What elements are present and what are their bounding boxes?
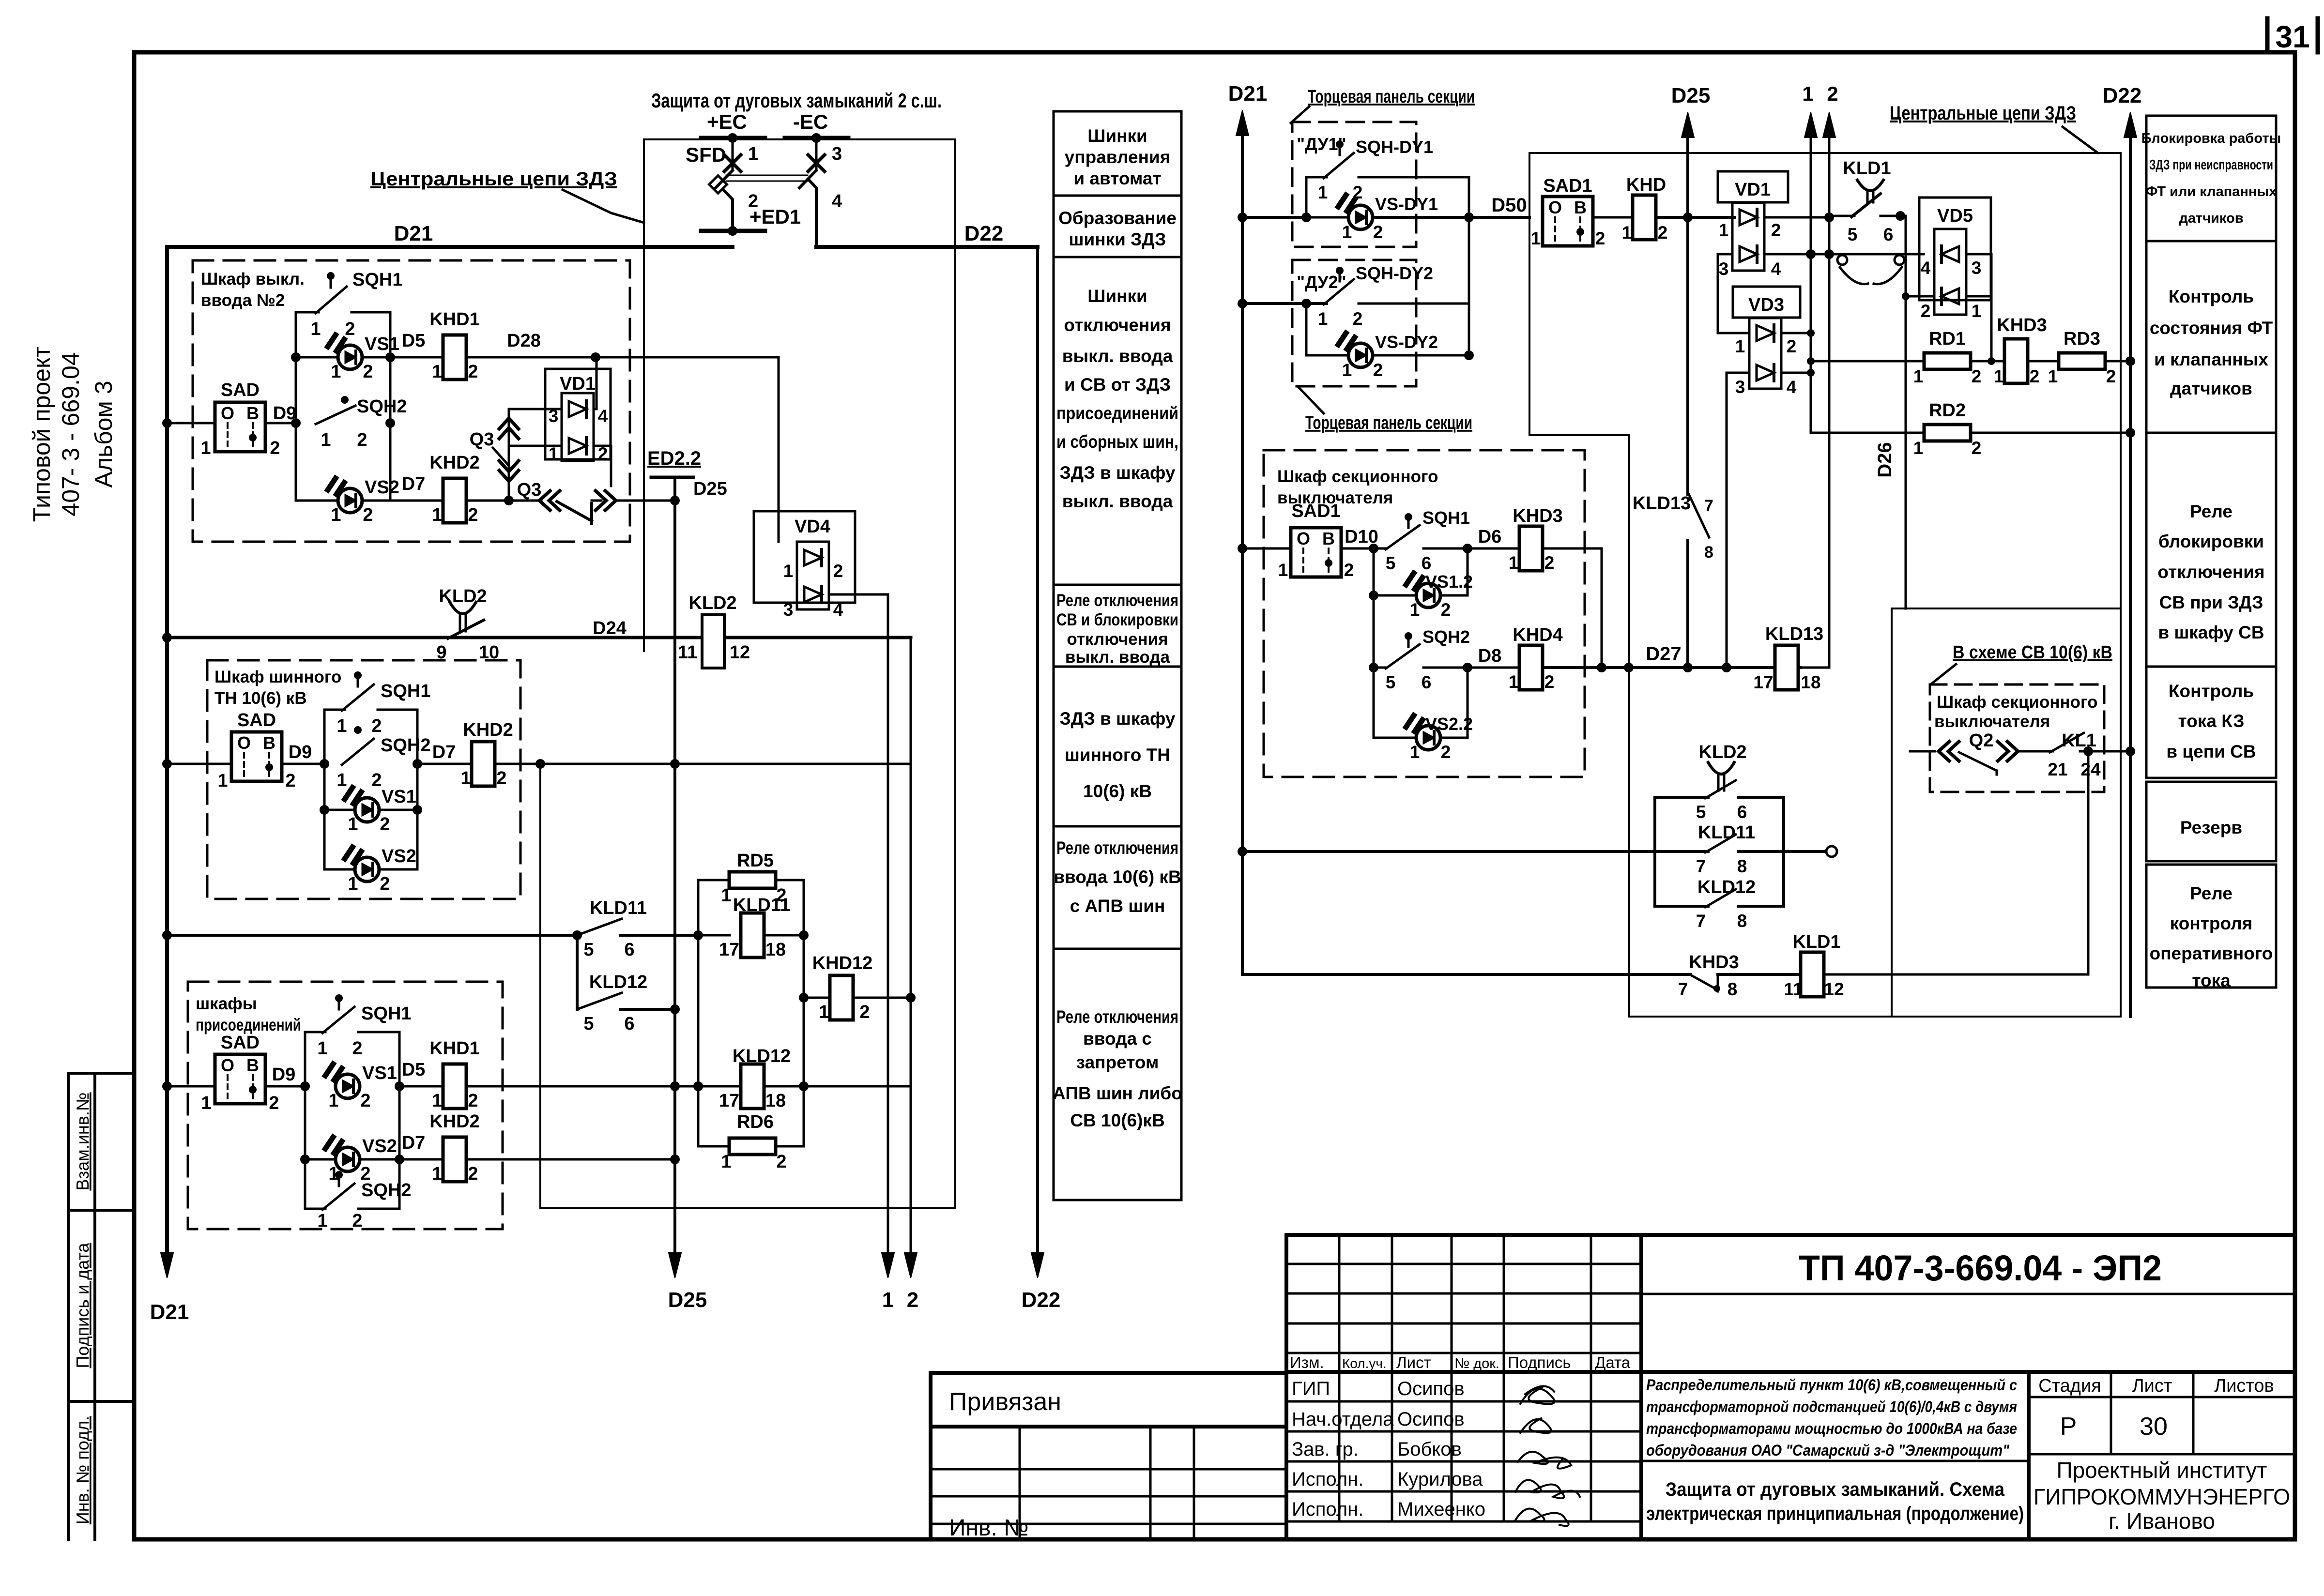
svg-text:Привязан: Привязан	[949, 1388, 1061, 1416]
svg-text:KHD2: KHD2	[429, 453, 479, 473]
svg-text:Стадия: Стадия	[2038, 1376, 2101, 1396]
svg-text:VS-DY2: VS-DY2	[1375, 332, 1438, 352]
svg-text:4: 4	[598, 406, 608, 426]
svg-text:Центральные цепи ЗДЗ: Центральные цепи ЗДЗ	[1890, 103, 2076, 124]
wire	[390, 356, 443, 359]
wire VD3 pin3 down to D27	[1727, 373, 1749, 668]
relay KLD1 coil	[1801, 952, 1824, 997]
svg-text:выкл. ввода: выкл. ввода	[1062, 346, 1173, 366]
svg-text:1: 1	[1278, 560, 1288, 580]
svg-text:Центральные цепи ЗДЗ: Центральные цепи ЗДЗ	[370, 168, 617, 190]
svg-text:Инв. №: Инв. №	[949, 1515, 1029, 1541]
svg-text:2: 2	[1771, 220, 1781, 240]
svg-text:2: 2	[1344, 560, 1354, 580]
svg-text:1: 1	[1531, 228, 1541, 248]
svg-text:1: 1	[2048, 366, 2058, 386]
svg-text:KHD1: KHD1	[429, 309, 479, 330]
svg-text:Защита от дуговых замыканий. С: Защита от дуговых замыканий. Схема	[1666, 1479, 2005, 1500]
relay KHD3	[1519, 526, 1543, 571]
svg-text:1: 1	[200, 438, 211, 458]
svg-text:1: 1	[1410, 742, 1420, 762]
svg-text:24: 24	[2080, 760, 2101, 779]
svg-text:Шкаф секционного: Шкаф секционного	[1277, 467, 1438, 486]
svg-text:Кол.уч.: Кол.уч.	[1342, 1356, 1387, 1371]
svg-text:17: 17	[1753, 672, 1773, 692]
svg-text:управления: управления	[1065, 147, 1171, 167]
wire VD4 pin4 to arrows rail	[829, 594, 888, 638]
svg-text:5: 5	[583, 940, 594, 960]
diode assembly VD4	[754, 511, 855, 603]
svg-text:ЗДЗ в шкафу: ЗДЗ в шкафу	[1060, 709, 1176, 729]
lamp VS1.2	[1373, 548, 1375, 595]
svg-text:1: 1	[217, 771, 228, 791]
svg-text:1: 1	[1318, 309, 1328, 329]
wire to VD1	[1656, 216, 1734, 219]
svg-text:1: 1	[460, 768, 471, 789]
svg-text:VD3: VD3	[1748, 295, 1784, 315]
switch SQH2	[316, 406, 355, 424]
wire VD3 pin4 to rail1	[1781, 372, 1811, 374]
svg-text:2: 2	[468, 362, 478, 382]
svg-text:2: 2	[1921, 301, 1931, 321]
wire left rail	[295, 312, 297, 501]
svg-text:D28: D28	[507, 331, 541, 351]
lamp VS2 row	[305, 1158, 335, 1161]
svg-text:ЗДЗ при неисправности: ЗДЗ при неисправности	[2149, 157, 2273, 173]
breaker SFD pole 3-4	[815, 138, 818, 170]
svg-text:1: 1	[1913, 438, 1924, 458]
wire rails	[304, 1032, 306, 1209]
svg-text:D24: D24	[593, 618, 627, 638]
svg-text:и клапанных: и клапанных	[2154, 350, 2268, 369]
switch SAD	[215, 1054, 265, 1104]
svg-text:Листов: Листов	[2214, 1376, 2274, 1396]
wire	[390, 500, 443, 502]
svg-text:2: 2	[468, 1164, 478, 1184]
svg-text:7: 7	[1696, 911, 1706, 931]
svg-text:1: 1	[1994, 366, 2004, 386]
svg-text:Реле отключения: Реле отключения	[1056, 591, 1178, 610]
svg-text:D22: D22	[2103, 84, 2142, 107]
svg-text:D50: D50	[1491, 195, 1527, 216]
svg-text:KLD1: KLD1	[1792, 932, 1840, 952]
svg-text:VS2.2: VS2.2	[1425, 714, 1473, 734]
svg-text:Шинки: Шинки	[1087, 286, 1147, 306]
svg-text:8: 8	[1728, 979, 1738, 999]
svg-text:1: 1	[1509, 672, 1519, 692]
node D25 bottom arrow	[669, 1253, 681, 1278]
svg-text:выключателя: выключателя	[1934, 712, 2050, 731]
svg-text:D26: D26	[1874, 442, 1896, 477]
node dashed cabinet Шкаф шинного ТН 10(6) кВ	[207, 660, 520, 899]
svg-text:21: 21	[2048, 760, 2067, 779]
svg-text:VS2: VS2	[362, 1136, 397, 1156]
wire VD5 pin3 right down	[1966, 254, 1991, 361]
svg-text:SQH2: SQH2	[381, 735, 430, 756]
resistor RD1 row	[1811, 360, 1924, 363]
svg-text:1: 1	[310, 319, 321, 339]
svg-text:VS1: VS1	[362, 1063, 397, 1083]
svg-text:KLD11: KLD11	[590, 898, 647, 918]
svg-text:2: 2	[345, 319, 355, 339]
svg-text:1: 1	[1509, 553, 1519, 573]
svg-text:KHD1: KHD1	[429, 1038, 479, 1059]
svg-text:1: 1	[1735, 336, 1745, 356]
svg-text:Шкаф шинного: Шкаф шинного	[214, 668, 341, 686]
svg-text:1: 1	[321, 430, 331, 450]
junction on D21	[162, 1081, 172, 1091]
wire row from D21 to KLD11	[1242, 850, 1655, 853]
svg-text:Бобков: Бобков	[1397, 1439, 1462, 1460]
svg-text:тока: тока	[2192, 971, 2231, 990]
svg-text:1: 1	[432, 1091, 442, 1111]
svg-text:VS1: VS1	[365, 334, 399, 354]
svg-text:KLD2: KLD2	[1698, 742, 1746, 762]
svg-text:8: 8	[1737, 911, 1747, 931]
relay KHD1	[443, 1064, 466, 1109]
wire D22 vertical	[1036, 247, 1039, 1256]
svg-text:2: 2	[1827, 82, 1838, 105]
lamp VS1 on main row	[325, 1064, 360, 1098]
svg-text:1: 1	[432, 362, 442, 382]
svg-text:АПВ шин либо: АПВ шин либо	[1053, 1083, 1182, 1103]
lamp VS1	[324, 809, 354, 811]
switch SAD	[231, 732, 282, 781]
svg-text:KHD2: KHD2	[429, 1111, 479, 1132]
relay KLD2 coil	[702, 615, 724, 668]
svg-text:2: 2	[1972, 438, 1982, 458]
svg-text:2: 2	[360, 1091, 370, 1111]
svg-text:SQH-DY1: SQH-DY1	[1356, 137, 1433, 157]
wire to Q3	[466, 500, 541, 502]
node D22 bottom arrow	[1031, 1253, 1044, 1278]
svg-text:D9: D9	[272, 1064, 296, 1085]
svg-text:6: 6	[624, 1014, 634, 1034]
switch SQH2 branch	[305, 1208, 325, 1210]
svg-text:2: 2	[1787, 336, 1797, 356]
svg-text:ТП 407-3-669.04 - ЭП2: ТП 407-3-669.04 - ЭП2	[1799, 1248, 2162, 1288]
svg-text:1: 1	[328, 1091, 338, 1111]
relay KHD2	[443, 478, 466, 523]
svg-text:Реле отключения: Реле отключения	[1056, 1007, 1178, 1027]
wire to right rail up	[1824, 751, 2088, 974]
svg-text:1: 1	[432, 1164, 442, 1184]
svg-text:30: 30	[2140, 1413, 2168, 1441]
svg-text:запретом: запретом	[1076, 1052, 1159, 1072]
wire rail left KLD group	[697, 935, 700, 1146]
svg-text:KHD2: KHD2	[463, 720, 513, 740]
svg-text:Зав. гр.: Зав. гр.	[1292, 1439, 1359, 1460]
left rotated project text	[28, 347, 117, 522]
svg-text:6: 6	[1883, 225, 1894, 244]
resistor RD5	[729, 872, 776, 888]
svg-text:1: 1	[348, 814, 358, 835]
svg-text:ЗДЗ в шкафу: ЗДЗ в шкафу	[1060, 463, 1176, 483]
svg-text:Подпись и дата: Подпись и дата	[73, 1243, 92, 1368]
wire KHD2 output to D25 line	[466, 1158, 675, 1161]
right function text column	[2141, 116, 2281, 990]
lamp VS-DY1	[1306, 216, 1348, 219]
wire heavy D22 top run	[816, 245, 1038, 249]
svg-text:KHD12: KHD12	[812, 953, 873, 973]
wire	[167, 763, 231, 765]
svg-text:12: 12	[1824, 979, 1844, 999]
lamp VS-DY2	[1305, 304, 1308, 355]
junction on D21	[162, 418, 172, 428]
wire	[282, 763, 324, 765]
svg-text:1: 1	[201, 1093, 211, 1113]
svg-text:2: 2	[776, 1152, 786, 1172]
svg-text:SAD: SAD	[221, 380, 260, 400]
wire D28	[466, 356, 779, 359]
svg-text:Взам.инв.№: Взам.инв.№	[73, 1092, 92, 1190]
svg-text:Защита от дуговых замыканий 2: Защита от дуговых замыканий 2 с.ш.	[651, 89, 942, 112]
svg-text:1: 1	[348, 874, 358, 894]
switch SQH1 branch	[324, 709, 345, 711]
svg-text:2: 2	[907, 1288, 918, 1312]
svg-text:4: 4	[832, 191, 842, 212]
svg-text:D22: D22	[1022, 1288, 1061, 1312]
svg-text:2: 2	[1595, 228, 1605, 248]
lamp VS2	[324, 868, 354, 871]
svg-text:5: 5	[583, 1014, 594, 1034]
relay KHD1	[443, 335, 466, 380]
svg-text:в цепи СВ: в цепи СВ	[2166, 742, 2256, 761]
svg-text:VD1: VD1	[1735, 180, 1771, 200]
svg-text:18: 18	[1801, 672, 1820, 692]
wire rail left	[1373, 548, 1375, 738]
svg-text:отключения: отключения	[1067, 630, 1168, 649]
svg-text:Шкаф выкл.: Шкаф выкл.	[201, 270, 305, 289]
svg-text:1: 1	[1802, 82, 1813, 105]
wire VD1 pin4 row to KLD1/VD5	[1764, 253, 1924, 256]
svg-text:Исполн.: Исполн.	[1292, 1469, 1363, 1490]
wire rail	[1468, 177, 1470, 355]
wire line 2 vertical	[910, 638, 912, 1256]
svg-text:2: 2	[285, 771, 295, 791]
svg-text:3: 3	[783, 600, 794, 620]
svg-text:D21: D21	[394, 222, 433, 245]
contact Q2 plug chevrons	[1939, 742, 1959, 761]
svg-text:4: 4	[833, 600, 843, 620]
svg-text:2: 2	[1373, 222, 1383, 242]
svg-text:1: 1	[1972, 301, 1982, 321]
svg-text:17: 17	[719, 1091, 739, 1111]
svg-text:в шкафу СВ: в шкафу СВ	[2158, 623, 2264, 642]
wire row KLD11	[167, 934, 577, 937]
svg-text:2: 2	[1353, 309, 1363, 329]
relay KLD12 coil row	[698, 1085, 730, 1088]
relay KHD2	[443, 1137, 466, 1182]
resistor RD2 row	[1811, 432, 1924, 434]
svg-text:ввода с: ввода с	[1083, 1029, 1152, 1049]
svg-text:SQH-DY2: SQH-DY2	[1356, 263, 1433, 283]
wire thin box around central relays	[540, 139, 955, 1208]
svg-text:Лист: Лист	[2132, 1376, 2172, 1396]
svg-text:шинки ЗДЗ: шинки ЗДЗ	[1069, 229, 1166, 249]
svg-text:VS2: VS2	[365, 477, 399, 498]
svg-text:17: 17	[719, 940, 739, 960]
wire to SAD	[167, 422, 215, 425]
svg-text:6: 6	[1422, 672, 1432, 692]
svg-text:1: 1	[748, 144, 758, 164]
svg-text:SAD: SAD	[221, 1033, 260, 1053]
svg-text:D5: D5	[402, 331, 426, 351]
small table left	[1286, 1263, 1641, 1265]
svg-text:5: 5	[1386, 672, 1396, 692]
svg-text:SQH1: SQH1	[381, 681, 430, 701]
svg-text:SFD: SFD	[686, 143, 726, 166]
svg-text:СВ 10(6)кВ: СВ 10(6)кВ	[1070, 1110, 1164, 1130]
wire	[265, 1085, 305, 1088]
wire KLD13 to rail2	[1798, 667, 1829, 669]
svg-text:и автомат: и автомат	[1073, 168, 1161, 188]
privyazan table	[931, 1373, 1286, 1541]
svg-text:и СВ от ЗДЗ: и СВ от ЗДЗ	[1064, 375, 1171, 395]
svg-text:Осипов: Осипов	[1397, 1409, 1465, 1430]
svg-text:1: 1	[331, 505, 341, 525]
svg-text:SQH1: SQH1	[352, 270, 402, 290]
switch Q3 blade	[557, 502, 592, 521]
svg-text:2: 2	[1972, 366, 1982, 386]
svg-text:Контроль: Контроль	[2169, 287, 2254, 306]
svg-text:ввода 10(6) кВ: ввода 10(6) кВ	[1054, 867, 1181, 887]
svg-text:выкл. ввода: выкл. ввода	[1062, 491, 1173, 511]
svg-text:4: 4	[1787, 377, 1797, 397]
svg-text:D5: D5	[402, 1060, 426, 1080]
svg-text:Торцевая панель секции: Торцевая панель секции	[1305, 413, 1472, 433]
wire	[417, 763, 472, 765]
svg-text:состояния ФТ: состояния ФТ	[2150, 318, 2273, 338]
svg-text:ТН 10(6) кВ: ТН 10(6) кВ	[214, 689, 307, 708]
wire rail 5-5	[576, 935, 579, 1009]
svg-text:7: 7	[1696, 856, 1706, 876]
description (hand lettered)	[1646, 1376, 2017, 1459]
svg-text:VS2: VS2	[382, 846, 416, 866]
svg-text:ввода №2: ввода №2	[201, 291, 285, 310]
svg-text:D8: D8	[1478, 646, 1502, 666]
svg-text:Реле: Реле	[2190, 502, 2232, 521]
node Q3 vertical with chevrons	[508, 409, 510, 501]
wire right rail	[389, 312, 392, 501]
svg-text:2: 2	[363, 362, 373, 382]
svg-text:В схеме СВ 10(6) кВ: В схеме СВ 10(6) кВ	[1953, 642, 2112, 663]
svg-text:2: 2	[1441, 742, 1451, 762]
page number 31 box	[2265, 18, 2270, 52]
svg-text:Блокировка работы: Блокировка работы	[2141, 131, 2281, 146]
resistor RD6	[729, 1138, 776, 1155]
svg-text:Реле: Реле	[2190, 883, 2232, 903]
svg-text:D7: D7	[402, 474, 426, 494]
svg-text:SQH2: SQH2	[361, 1180, 411, 1201]
svg-text:VD5: VD5	[1937, 206, 1973, 226]
svg-text:KHD4: KHD4	[1513, 625, 1562, 645]
relay KHD3 coil	[2004, 339, 2028, 383]
svg-text:10(6) кВ: 10(6) кВ	[1083, 781, 1152, 801]
svg-text:ГИП: ГИП	[1292, 1378, 1330, 1399]
svg-text:шкафы: шкафы	[196, 994, 257, 1013]
svg-text:Реле отключения: Реле отключения	[1056, 838, 1178, 858]
svg-text:электрическая принципиальная (: электрическая принципиальная (продолжени…	[1646, 1503, 2024, 1524]
switch SQH1	[1386, 525, 1420, 549]
contact Q3 plug-in (left chevrons)	[539, 491, 560, 510]
diode assembly VD3	[1733, 287, 1800, 318]
contact KLD11	[577, 919, 622, 935]
svg-text:11: 11	[678, 642, 697, 663]
svg-text:D6: D6	[1478, 527, 1502, 547]
wire VD5 pin2 to D26	[1906, 295, 1934, 298]
relay KHD4	[1519, 645, 1543, 690]
svg-text:2: 2	[269, 1093, 279, 1113]
node D21 bottom arrow	[161, 1253, 173, 1278]
relay KLD13 coil	[1775, 645, 1798, 690]
svg-text:Изм.: Изм.	[1290, 1353, 1324, 1371]
diode assembly VD5	[1919, 198, 1991, 300]
switch SQH1 branch	[305, 1031, 325, 1034]
wire to right	[495, 763, 911, 765]
wire SAD to node	[265, 422, 296, 425]
svg-text:Инв. № подл.: Инв. № подл.	[73, 1416, 92, 1524]
wire D21 top bus horizontal	[167, 245, 733, 249]
node arrows 1 2 top	[1810, 118, 1812, 433]
wire D25 vertical	[673, 477, 676, 1256]
svg-text:KHD3: KHD3	[1997, 315, 2047, 335]
svg-text:2: 2	[776, 885, 786, 906]
switch SQH-DY1	[1238, 213, 1247, 222]
svg-text:1: 1	[1719, 220, 1729, 240]
svg-text:SAD: SAD	[237, 710, 276, 730]
svg-text:SAD1: SAD1	[1291, 501, 1340, 521]
wire loop rails	[1653, 797, 1656, 906]
svg-text:7: 7	[1704, 497, 1713, 515]
svg-text:18: 18	[765, 940, 786, 960]
switch SQH1	[296, 311, 319, 314]
wire KHD3 contact row	[1242, 973, 1691, 976]
svg-text:ED2.2: ED2.2	[647, 448, 701, 469]
junction on D21	[162, 759, 172, 769]
svg-text:2: 2	[2030, 366, 2040, 386]
svg-text:2: 2	[380, 814, 390, 835]
svg-text:18: 18	[765, 1091, 786, 1111]
svg-text:1: 1	[1342, 360, 1352, 380]
node dashed cabinet Шкаф секционного выключателя	[1264, 450, 1585, 777]
wire VD1 pin2 to rail2	[1764, 216, 1829, 219]
svg-text:2: 2	[1373, 360, 1383, 380]
svg-text:оперативного: оперативного	[2150, 943, 2273, 963]
wire	[1593, 216, 1633, 219]
node dashed cabinet шкафы присоединений	[188, 982, 503, 1229]
signatures (squiggles)	[1515, 1386, 1580, 1526]
switch SQH2	[1386, 644, 1420, 669]
svg-text:2: 2	[468, 505, 478, 525]
svg-text:5: 5	[1386, 553, 1396, 573]
svg-text:RD1: RD1	[1929, 329, 1966, 349]
svg-text:1: 1	[783, 561, 794, 581]
svg-text:5: 5	[1696, 802, 1706, 822]
svg-text:RD6: RD6	[737, 1112, 774, 1132]
svg-text:3: 3	[1735, 377, 1745, 397]
svg-text:D25: D25	[693, 479, 727, 499]
svg-text:VD4: VD4	[795, 517, 830, 537]
svg-text:+ЕС: +ЕС	[707, 110, 747, 133]
relay KHD12	[804, 997, 830, 999]
wire KHD3 down to D27	[1543, 548, 1602, 668]
svg-text:Q2: Q2	[1969, 730, 1994, 751]
svg-text:VS-DY1: VS-DY1	[1375, 194, 1438, 214]
wire line 1 vertical	[887, 638, 889, 1256]
svg-text:D9: D9	[289, 742, 312, 762]
lamp VS2	[296, 500, 337, 502]
